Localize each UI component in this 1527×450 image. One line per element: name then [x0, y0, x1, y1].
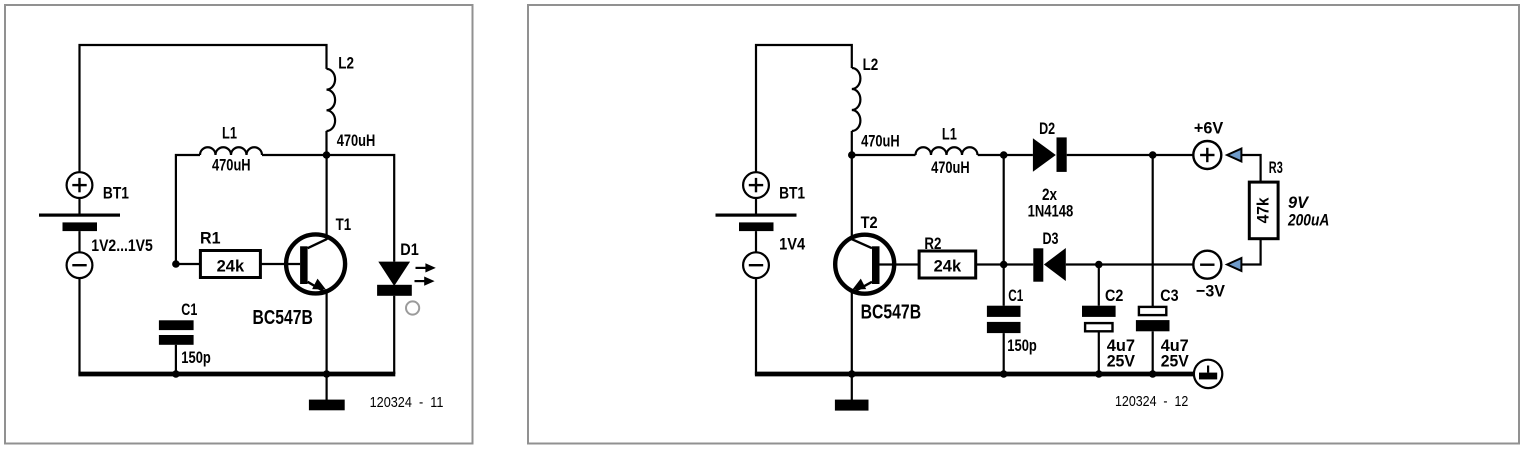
wire	[978, 154, 1004, 156]
node junction L1/D2/C3 rail	[1000, 151, 1008, 159]
svg-text:−3V: −3V	[1196, 282, 1226, 301]
ground	[835, 374, 869, 411]
wire	[1152, 155, 1154, 307]
svg-text:25V: 25V	[1107, 352, 1136, 371]
battery BT1 minus terminal circle	[743, 252, 769, 278]
battery BT1 plus terminal circle	[67, 172, 93, 198]
svg-text:150p: 150p	[1007, 336, 1037, 355]
ground	[309, 374, 345, 410]
svg-text:+6V: +6V	[1194, 119, 1224, 138]
node junction C3/bus	[1149, 370, 1157, 378]
LED indicator circle	[406, 301, 419, 314]
resistor R2	[919, 251, 976, 278]
node junction base/R1/C1	[172, 260, 180, 268]
wire	[755, 278, 757, 375]
battery BT1 negative plate	[739, 222, 774, 231]
svg-text:47k: 47k	[1254, 197, 1273, 223]
wire	[176, 263, 201, 265]
wire	[1066, 263, 1194, 265]
wire	[393, 296, 395, 374]
svg-text:24k: 24k	[217, 257, 245, 276]
svg-text:D1: D1	[400, 240, 419, 259]
LED light arrow 1	[416, 263, 436, 272]
node junction C1/bus	[172, 370, 180, 378]
svg-text:25V: 25V	[1161, 352, 1190, 371]
wire	[756, 45, 852, 172]
node junction L2/L1/collector	[323, 151, 331, 159]
node junction D2/C3	[1149, 151, 1157, 159]
diode D3 1N4148	[1033, 248, 1066, 282]
wire	[880, 263, 920, 265]
capacitor C1	[159, 320, 194, 345]
battery BT1 positive plate	[716, 214, 797, 217]
wire	[755, 198, 757, 214]
svg-text:470uH: 470uH	[212, 156, 251, 175]
capacitor C1	[987, 306, 1021, 333]
wire ground bus	[755, 372, 1194, 377]
node junction L2/L1/collector	[848, 151, 856, 159]
capacitor C2 electrolytic	[1082, 306, 1116, 332]
-3V output terminal	[1193, 251, 1221, 279]
wire	[1003, 155, 1005, 306]
svg-text:BT1: BT1	[103, 184, 129, 203]
wire	[755, 231, 757, 252]
svg-text:BT1: BT1	[779, 184, 805, 203]
wire	[78, 278, 80, 375]
wire	[1067, 154, 1194, 156]
svg-text:120324 - 12: 120324 - 12	[1115, 393, 1188, 410]
battery BT1 negative plate	[63, 222, 98, 231]
left schematic frame	[5, 5, 473, 444]
LED D1	[377, 262, 412, 296]
wire ground bus	[78, 372, 395, 377]
svg-text:R3: R3	[1269, 158, 1283, 177]
battery BT1 minus terminal circle	[67, 252, 93, 278]
svg-text:150p: 150p	[181, 348, 211, 367]
svg-text:1V2...1V5: 1V2...1V5	[91, 236, 153, 255]
wire	[176, 155, 200, 264]
inductor L2	[852, 68, 861, 131]
LED light arrow 2	[415, 277, 435, 286]
svg-text:C2: C2	[1105, 286, 1123, 305]
wire	[78, 198, 80, 214]
arrow to +6V	[1227, 149, 1241, 162]
inductor L1	[200, 147, 262, 155]
inductor L1	[916, 147, 978, 155]
wire	[1098, 265, 1100, 306]
transistor T1 BC547B	[286, 234, 345, 293]
svg-text:C1: C1	[181, 300, 197, 319]
svg-text:BC547B: BC547B	[861, 302, 922, 324]
svg-text:200uA: 200uA	[1287, 210, 1329, 229]
wire	[1004, 154, 1033, 156]
svg-text:R2: R2	[924, 234, 941, 253]
diode D2 1N4148	[1033, 137, 1067, 172]
resistor R1	[200, 251, 260, 278]
node junction C1/bus	[1000, 370, 1008, 378]
wire	[1152, 331, 1154, 375]
wire	[80, 45, 327, 172]
capacitor C3 electrolytic	[1136, 307, 1170, 331]
svg-text:L1: L1	[222, 124, 237, 143]
node junction emitter/bus	[848, 370, 856, 378]
svg-text:24k: 24k	[934, 257, 962, 276]
wire	[1241, 155, 1260, 182]
svg-text:D2: D2	[1039, 119, 1055, 138]
svg-text:R1: R1	[200, 228, 221, 247]
ground terminal circle	[1194, 360, 1222, 388]
+6V output terminal	[1193, 141, 1221, 169]
svg-text:D3: D3	[1043, 229, 1059, 248]
svg-text:C3: C3	[1160, 286, 1178, 305]
wire	[325, 131, 327, 155]
arrow to -3V	[1227, 258, 1241, 271]
svg-text:L2: L2	[863, 55, 879, 74]
svg-text:L2: L2	[338, 53, 354, 72]
wire	[1004, 263, 1034, 265]
wire	[1003, 333, 1005, 375]
svg-text:9V: 9V	[1288, 193, 1310, 212]
wire	[851, 131, 853, 155]
wire	[851, 292, 853, 376]
svg-text:1V4: 1V4	[779, 235, 805, 254]
wire	[175, 345, 177, 375]
svg-text:BC547B: BC547B	[253, 307, 313, 329]
svg-text:1N4148: 1N4148	[1028, 201, 1074, 220]
node junction C2/bus	[1095, 370, 1103, 378]
node junction D3/C2	[1095, 261, 1103, 269]
wire	[852, 154, 916, 156]
battery BT1 plus terminal circle	[743, 172, 769, 198]
node junction emitter/bus	[323, 370, 331, 378]
wire	[1098, 333, 1100, 376]
wire	[851, 155, 853, 240]
wire	[260, 263, 300, 265]
svg-text:T1: T1	[336, 215, 352, 234]
resistor R3	[1249, 182, 1278, 239]
wire	[327, 155, 395, 262]
svg-text:L1: L1	[942, 125, 957, 144]
wire	[1241, 239, 1260, 265]
right schematic frame	[528, 5, 1519, 444]
battery BT1 positive plate	[39, 214, 120, 217]
wire	[976, 263, 1004, 265]
wire	[326, 155, 328, 240]
svg-text:C1: C1	[1008, 286, 1023, 305]
wire	[78, 231, 80, 252]
wire	[326, 292, 328, 376]
inductor L2	[327, 69, 336, 131]
svg-text:T2: T2	[861, 213, 878, 232]
svg-text:120324 - 11: 120324 - 11	[370, 394, 444, 411]
transistor T2 BC547B	[835, 235, 894, 294]
svg-text:470uH: 470uH	[861, 132, 900, 151]
svg-text:470uH: 470uH	[931, 158, 970, 177]
svg-text:470uH: 470uH	[337, 131, 376, 150]
wire	[262, 154, 327, 156]
node junction R2/D3/C1	[1000, 261, 1008, 269]
